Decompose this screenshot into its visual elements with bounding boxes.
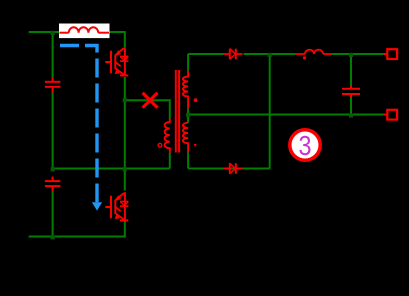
upper secondary polarity dot — [194, 98, 198, 102]
output terminal - — [384, 114, 387, 116]
wire center tap upper segment — [187, 108, 189, 113]
svg-text:3: 3 — [299, 130, 312, 161]
circled number 3 — [290, 130, 320, 160]
diode D2 (bottom rectifier) — [224, 163, 243, 174]
wire half-bridge midpoint vertical — [124, 77, 126, 191]
wire output capacitor upper lead — [350, 54, 352, 86]
transistor Q2 (lower IGBT with antiparallel diode) — [105, 192, 128, 221]
wire output capacitor lower lead — [350, 98, 352, 115]
output inductor polarity dot — [303, 56, 306, 59]
wire top rail right of box — [110, 32, 125, 47]
wire left rail upper — [52, 32, 54, 77]
wire left rail lower — [52, 192, 54, 237]
wire secondary bottom lead — [187, 152, 189, 168]
junction node output cap top — [349, 53, 353, 57]
inductor L2 (output filter) — [295, 50, 332, 54]
current path arrow (blue dashed) — [60, 46, 97, 203]
transformer T1 secondary lower winding — [183, 123, 188, 152]
capacitor C3 (output) — [342, 86, 360, 98]
wire capacitor midpoint to primary bottom — [53, 168, 170, 170]
junction node output cap bottom — [349, 113, 353, 117]
wire center tap lower segment — [187, 117, 189, 123]
wire secondary top lead — [187, 54, 189, 71]
wire bottom diode row — [188, 168, 270, 170]
transformer T1 primary winding — [165, 119, 170, 153]
wire left rail middle — [52, 93, 54, 169]
capacitor C1 (input upper) — [45, 77, 61, 93]
transformer T1 core — [175, 70, 177, 153]
highlight box around input inductor — [59, 24, 110, 39]
lower secondary polarity triangle — [194, 144, 197, 147]
junction node top-left — [51, 31, 55, 35]
wire output inductor to terminal — [332, 53, 384, 55]
wire primary bottom lead — [169, 153, 171, 169]
junction node half-bridge midpoint — [123, 98, 127, 102]
current path arrowhead — [92, 202, 102, 210]
transistor Q1 (upper IGBT with antiparallel diode) — [105, 48, 128, 77]
wire midpoint to transformer primary top — [125, 100, 170, 118]
junction node center tap — [186, 113, 190, 117]
junction node capacitor midpoint — [51, 167, 55, 171]
wire rectifier OR vertical — [269, 54, 271, 169]
fault X marker — [143, 93, 158, 108]
primary polarity circle — [158, 143, 162, 147]
wire top secondary rail to D1 — [188, 53, 224, 55]
wire top rail left — [29, 31, 59, 33]
inductor L1 (boxed, input) — [60, 27, 110, 32]
output terminal + — [384, 53, 388, 55]
wire D1 to output inductor — [244, 53, 296, 55]
junction node bottom-left — [51, 235, 55, 239]
capacitor C2 (input lower) — [45, 177, 61, 192]
wire bottom rail — [29, 220, 125, 237]
diode D1 (top rectifier) — [224, 49, 243, 60]
wire center tap to output bottom rail — [188, 114, 384, 116]
junction node rectifier OR top — [268, 53, 272, 57]
junction node midpoint-capacitor wire — [123, 167, 127, 171]
transformer T1 secondary upper winding — [183, 71, 188, 109]
